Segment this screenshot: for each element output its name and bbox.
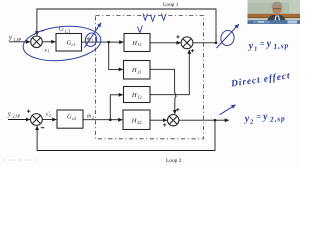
wire H22 to sum2 — [150, 119, 167, 121]
svg-text:Loop 2: Loop 2 — [166, 158, 182, 164]
svg-text:1,sp: 1,sp — [273, 41, 289, 51]
label plus sum1 left — [176, 35, 179, 38]
wire branch to H11 — [109, 41, 124, 43]
webcam person head — [272, 3, 282, 14]
svg-text:Direct effect: Direct effect — [230, 71, 292, 89]
wire branch m2 up to H12 — [110, 95, 123, 120]
svg-text:y̅: y̅ — [8, 36, 12, 42]
wire sum2 output with arrow y2 — [179, 119, 215, 121]
label plus sumL2 — [27, 110, 30, 113]
wire sumL1 to Gc1 — [42, 41, 55, 43]
label minus sumL1 — [41, 30, 44, 32]
wire sum1 output to node y1 — [193, 42, 216, 44]
svg-text:c1: c1 — [72, 42, 76, 47]
wire loop2 feedback path — [37, 120, 215, 150]
wire Gc1 to branch node m1 — [82, 41, 109, 43]
node y1 junction dot — [215, 42, 218, 45]
annotation ellipse around controller 1 — [21, 23, 102, 65]
svg-text:y̅: y̅ — [7, 112, 11, 118]
webcam person shoulders — [266, 15, 287, 24]
svg-text:=: = — [259, 38, 265, 48]
blue pen annotations — [21, 14, 238, 115]
process dashed boundary box — [96, 16, 204, 139]
svg-text:22: 22 — [137, 120, 142, 125]
process block H21 — [124, 61, 151, 80]
faint player controls bottom left — [3, 158, 37, 162]
label plus sum1 bottom — [191, 49, 194, 52]
label minus sumL2 — [41, 127, 44, 129]
svg-text:2,SP: 2,SP — [12, 114, 20, 120]
webcam overlay — [248, 0, 301, 24]
svg-text:2: 2 — [249, 119, 255, 126]
label plus sum2 left — [163, 123, 166, 126]
webcam bottom blue bar — [248, 20, 301, 24]
summing junction sumL1 — [31, 36, 43, 48]
node y2 junction dot — [214, 119, 217, 122]
webcam chalk rail — [248, 14, 301, 18]
process block H12 — [124, 87, 151, 103]
svg-text:Loop 1: Loop 1 — [163, 2, 179, 8]
wire branch to H22 — [110, 119, 122, 121]
node m1 junction dot — [107, 41, 110, 44]
svg-text:1: 1 — [254, 46, 258, 53]
summing junction sum1 — [181, 37, 193, 49]
svg-text:G: G — [58, 25, 64, 33]
node m2 junction dot — [109, 118, 112, 121]
wire loop1 feedback path — [37, 9, 216, 42]
text labels (printed) — [7, 2, 194, 164]
annotation text y1=y1sp — [247, 36, 289, 53]
annotation arrow y2 output — [220, 105, 236, 115]
annotation text y2=y2sp — [243, 109, 286, 126]
summing junction sumL2 — [31, 114, 43, 126]
svg-text:12: 12 — [137, 94, 142, 99]
svg-text:2,sp: 2,sp — [269, 114, 286, 124]
svg-text:H: H — [131, 117, 137, 124]
svg-text:y: y — [262, 111, 269, 122]
svg-text:1: 1 — [92, 38, 94, 43]
label plus sum2 top — [176, 108, 179, 111]
svg-text:11: 11 — [138, 42, 142, 47]
svg-text:2: 2 — [92, 115, 94, 120]
annotation check marks top — [143, 14, 148, 21]
wire branch m1 down to H21 — [109, 42, 123, 69]
controller block Gc2 — [57, 110, 83, 128]
wire H11 to sum1 — [150, 42, 181, 44]
wire sumL2 to Gc2 — [42, 119, 56, 121]
svg-text:H: H — [131, 40, 137, 47]
webcam person shirt — [274, 16, 282, 25]
svg-text:H: H — [131, 92, 137, 99]
annotation check mark above H11 — [138, 26, 143, 33]
svg-text:21: 21 — [137, 69, 142, 74]
svg-text:C1: C1 — [65, 29, 71, 35]
annotation circled y1 output with arrow — [219, 29, 235, 47]
svg-text:1: 1 — [47, 49, 49, 54]
process block H22 — [123, 110, 150, 130]
wire H12 right and up to sum1 — [150, 50, 189, 95]
webcam wall below rail — [248, 18, 301, 20]
svg-text:=: = — [256, 111, 262, 121]
wire input ysp1 — [9, 41, 30, 43]
svg-text:2: 2 — [49, 113, 51, 118]
process block H11 — [124, 34, 150, 52]
annotation circled node m1 with arrow — [84, 32, 98, 48]
wire Gc2 to branch node m2 — [83, 119, 110, 121]
svg-text:H: H — [131, 67, 137, 74]
wire input ysp2 — [8, 119, 30, 121]
svg-text:m̃: m̃ — [87, 114, 91, 120]
wire H21 right and down to sum2 (with crossover hop) — [150, 69, 175, 91]
summing junction sum2 — [168, 115, 179, 126]
webcam background chalkboard — [248, 0, 301, 24]
handwriting blue texts — [58, 25, 291, 127]
svg-text:y: y — [265, 38, 272, 49]
controller block Gc1 — [56, 34, 82, 52]
